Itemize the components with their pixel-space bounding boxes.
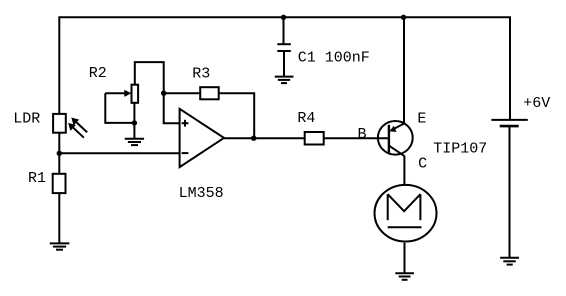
motor M1 <box>375 185 437 242</box>
transistor base bar <box>388 125 390 153</box>
svg-text:+6V: +6V <box>523 95 550 112</box>
capacitor C1 <box>277 44 291 51</box>
transistor Q1 circle <box>378 121 413 155</box>
svg-text:C1 100nF: C1 100nF <box>298 50 370 67</box>
wire R4 to base <box>324 137 389 139</box>
wire collector to motor <box>403 156 405 184</box>
ground (R1) <box>50 243 70 249</box>
ground (R2) <box>125 139 144 145</box>
wire junction to inverting input <box>59 152 179 154</box>
wire pot bottom to ground <box>133 103 135 139</box>
wire LDR to R1 <box>58 133 60 174</box>
wire battery negative to ground <box>509 126 511 257</box>
resistor R3 <box>200 87 219 99</box>
potentiometer R2 body <box>132 85 139 103</box>
svg-text:C: C <box>418 156 427 173</box>
wire C1 to ground <box>283 51 285 77</box>
svg-text:B: B <box>358 126 367 143</box>
svg-text:E: E <box>417 111 426 128</box>
ground (C1) <box>275 77 294 84</box>
ground (motor) <box>395 273 414 280</box>
resistor R4 <box>305 132 324 145</box>
svg-text:TIP107: TIP107 <box>433 141 487 158</box>
LDR body <box>53 114 66 133</box>
svg-text:R3: R3 <box>192 66 210 83</box>
wire feedback node to R3 <box>164 92 201 94</box>
svg-text:R1: R1 <box>28 170 46 187</box>
wire feedback node to non-inverting input <box>164 93 180 123</box>
node junction C1/top rail <box>281 15 286 20</box>
node junction R2/R3/+input <box>161 91 166 96</box>
svg-text:R4: R4 <box>297 110 315 127</box>
node junction wiper/pot bottom <box>132 120 137 125</box>
wire motor to ground <box>404 243 406 273</box>
resistor R1 <box>53 174 66 193</box>
op-amp U1 <box>180 109 224 167</box>
svg-text:LDR: LDR <box>13 110 40 127</box>
wire top supply rail <box>59 17 510 119</box>
wire R1 to ground <box>58 193 60 243</box>
wire R3 to output node <box>219 93 255 138</box>
wire wiper to pot bottom <box>105 93 134 123</box>
node junction LDR/R1/opamp <box>57 151 62 156</box>
LDR light arrows <box>68 118 87 138</box>
battery BT1 <box>491 120 527 126</box>
svg-text:LM358: LM358 <box>179 185 224 202</box>
op-amp plus marking <box>182 120 189 127</box>
node junction output/R3/R4 <box>251 136 256 141</box>
wire pot top to feedback node <box>135 62 164 93</box>
node junction emitter/top rail <box>401 15 406 20</box>
transistor emitter with arrow (PNP) <box>389 123 404 132</box>
ground (battery) <box>500 258 519 265</box>
wire top rail to C1 <box>283 17 285 44</box>
wire emitter to top rail <box>403 17 405 123</box>
wire op-amp output <box>224 137 305 139</box>
transistor collector diagonal <box>389 146 405 157</box>
pot wiper arrow <box>105 90 131 97</box>
op-amp minus marking <box>182 152 189 154</box>
svg-text:R2: R2 <box>89 65 107 82</box>
